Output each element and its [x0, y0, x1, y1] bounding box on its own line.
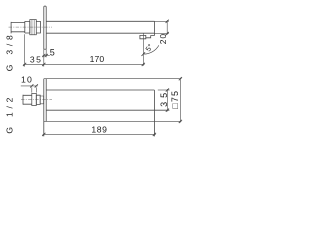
5 dim ticks — [42, 54, 48, 57]
35/170 extension left — [24, 34, 26, 66]
75 dim ticks — [179, 77, 182, 123]
189 dim ticks — [42, 133, 156, 136]
escutcheon lines — [44, 79, 46, 137]
aerator axis / 170 extension — [142, 33, 144, 66]
20 dim ticks — [166, 20, 169, 36]
body end face + 189 extension — [153, 90, 155, 136]
svg-text:5: 5 — [50, 47, 55, 57]
20 dim line — [166, 20, 168, 35]
flange extension lines — [44, 49, 46, 66]
hex nut top view — [30, 20, 37, 35]
tail pipe G1/2 — [23, 95, 32, 104]
nut facet lines — [32, 20, 34, 35]
20 dim extension top — [154, 20, 168, 22]
body top edge — [46, 89, 154, 91]
35/170 dim line — [23, 63, 144, 65]
75 extension top / escutcheon top edge — [44, 78, 182, 80]
5 deg arc — [143, 45, 159, 54]
svg-text:35: 35 — [159, 89, 169, 107]
aerator box — [140, 35, 146, 38]
svg-text:170: 170 — [90, 54, 105, 64]
75 dim line — [179, 78, 181, 123]
tick on arc — [142, 52, 146, 56]
centerline bottom view — [21, 98, 52, 100]
svg-text:G 1/2: G 1/2 — [4, 94, 14, 134]
spout tube bottom edge — [46, 32, 154, 34]
75 extension bottom / escutcheon bottom edge — [44, 120, 182, 122]
10 dim ticks — [30, 84, 38, 87]
dim ticks 35/170 — [23, 63, 145, 66]
spout end face — [153, 21, 155, 35]
flange bottom cap — [44, 48, 46, 50]
10 dim line — [21, 85, 38, 87]
tip underside step — [146, 36, 155, 38]
hex nut bottom view — [32, 93, 37, 105]
collar A — [25, 21, 30, 33]
centerline top view — [9, 26, 53, 28]
10 dim extensions — [32, 87, 37, 92]
35 dim right extension top — [158, 89, 170, 91]
189 dim line — [43, 133, 156, 135]
svg-text:20: 20 — [158, 33, 168, 44]
body bottom edge — [46, 109, 169, 111]
20 dim extension bottom — [154, 33, 168, 35]
35 dim line right — [166, 89, 168, 111]
svg-text:10: 10 — [21, 75, 33, 85]
35 dim ticks right — [166, 88, 169, 111]
pipe G3/8 end face — [10, 22, 12, 34]
collar 2 — [40, 96, 43, 104]
pipe G3/8 body — [11, 23, 25, 32]
svg-text:□75: □75 — [170, 90, 180, 109]
collar — [36, 95, 40, 104]
collar B — [36, 21, 40, 33]
svg-text:35: 35 — [30, 54, 43, 64]
5 dim line — [43, 55, 50, 57]
wall flange (escutcheon edge-on) — [44, 6, 46, 49]
svg-text:189: 189 — [91, 125, 107, 135]
tail pipe G1/2 end face — [22, 95, 24, 105]
svg-text:G 3/8: G 3/8 — [4, 31, 14, 71]
spout tube top edge — [46, 20, 154, 22]
